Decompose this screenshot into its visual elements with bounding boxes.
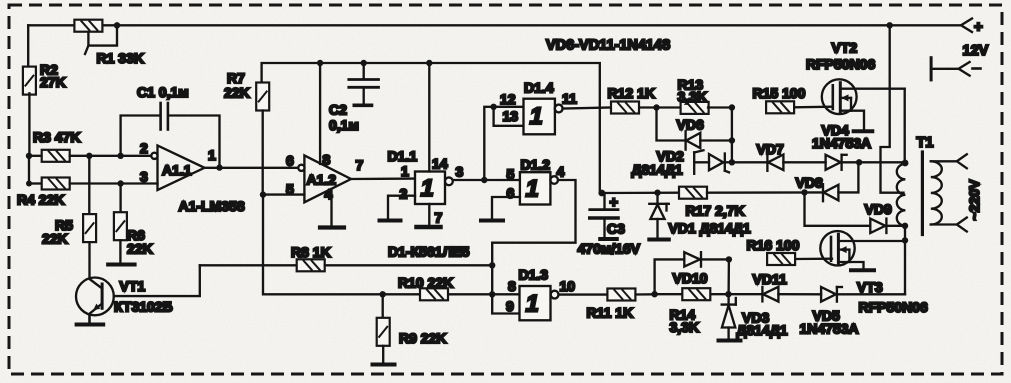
wire A1.1 output to A1.2 pin 6 xyxy=(205,167,299,169)
svg-text:1N4753A: 1N4753A xyxy=(800,321,859,337)
node R9 branch xyxy=(380,291,386,297)
ground under VD1 xyxy=(649,238,669,242)
svg-text:12: 12 xyxy=(500,91,516,107)
transistor Q VT3 RFP50N06 xyxy=(820,231,928,315)
resistor R9 22K xyxy=(377,294,447,362)
wire D1.1 pin 3 to D1.2 pin 5 xyxy=(453,179,520,181)
svg-text:R8 1K: R8 1K xyxy=(291,244,331,260)
node R11 / R14 / VD10 junction xyxy=(651,291,657,297)
op-amp U A1.2 xyxy=(286,152,364,203)
svg-text:13: 13 xyxy=(503,108,519,124)
resistor R6 22K xyxy=(114,184,153,263)
wire D1.1 pin 14 to sub-rail xyxy=(428,63,430,172)
svg-text:11: 11 xyxy=(562,91,577,107)
node sub-rail / C3 / R17 xyxy=(598,190,605,197)
wire R7 column down to R10 line xyxy=(263,195,420,295)
node R5 branch on pin2 line xyxy=(86,153,92,159)
svg-text:5: 5 xyxy=(507,166,515,182)
wire VD3 column xyxy=(727,259,730,294)
resistor R4 22K xyxy=(17,178,70,208)
resistor R5 22K xyxy=(42,156,96,247)
node R7 / A1.2 pin5 xyxy=(260,191,266,197)
svg-text:1: 1 xyxy=(526,291,539,318)
diode VD6 xyxy=(677,117,732,150)
wire D1.3 pin 8 xyxy=(492,293,519,295)
node R13 / R15 junction xyxy=(729,104,735,110)
zener VD1 Д814Д1 xyxy=(649,193,751,237)
node VD2 / VD7 junction xyxy=(729,159,735,165)
wire VD10 branch xyxy=(655,259,685,294)
node VD10 / R16 junction xyxy=(726,256,732,262)
node R8 right junction xyxy=(489,262,495,268)
gate U D1.3 xyxy=(506,267,575,321)
capacitor C1 0,1м xyxy=(121,84,220,167)
svg-text:8: 8 xyxy=(323,152,331,168)
svg-text:R9 22K: R9 22K xyxy=(399,330,446,346)
transformer T1 secondary winding xyxy=(931,161,942,224)
svg-text:7: 7 xyxy=(356,157,364,173)
wire branch up to D1.4 inputs xyxy=(484,107,493,180)
svg-text:3: 3 xyxy=(456,164,464,180)
svg-text:RFP50N06: RFP50N06 xyxy=(806,56,875,72)
svg-text:T1: T1 xyxy=(917,135,934,151)
svg-text:VD6-VD11-1N4148: VD6-VD11-1N4148 xyxy=(546,38,670,54)
svg-text:6: 6 xyxy=(507,185,515,201)
svg-text:R15 100: R15 100 xyxy=(753,85,806,101)
node VD6 / column xyxy=(729,137,735,143)
node R6 branch on pin3 line xyxy=(117,180,123,186)
ground under VT1 emitter xyxy=(77,315,104,324)
ground under A1.2 pin 4 xyxy=(320,225,344,229)
ground under C2 xyxy=(354,104,371,108)
wire R3 to op-amp pin 2 xyxy=(70,155,152,157)
gate U D1.4 xyxy=(500,80,577,135)
node T1 bottom / VT3 drain xyxy=(902,237,908,243)
node sub-rail D1.1 pin 14 xyxy=(426,60,432,66)
wire left column R3 to R4 xyxy=(28,156,30,184)
terminal +12V positive xyxy=(961,19,989,60)
svg-text:7: 7 xyxy=(435,210,443,226)
node R12 / R13 junction xyxy=(653,104,659,110)
wire D1.3 pin 9 loop xyxy=(492,294,519,313)
svg-text:27K: 27K xyxy=(40,74,66,90)
svg-text:КТ3102Б: КТ3102Б xyxy=(114,299,173,315)
wire T1 secondary top lead xyxy=(931,160,957,162)
node D1.4 pins 12-13 tie xyxy=(490,104,496,110)
capacitor C3 470м/16V xyxy=(578,193,641,257)
svg-text:R4 22K: R4 22K xyxy=(17,192,64,208)
diode VD8 xyxy=(796,162,859,201)
svg-text:A1.2: A1.2 xyxy=(307,172,337,188)
wire R4 to op-amp pin 3 xyxy=(70,182,158,184)
svg-text:22K: 22K xyxy=(42,231,68,247)
wire VCC sub-rail xyxy=(262,63,600,193)
node T1 top terminal xyxy=(902,160,909,167)
terminal 12V negative with chassis bar xyxy=(931,58,980,80)
ground under D1.1 pin 2 xyxy=(380,219,401,223)
wire A1.2 pin 8 to sub-rail xyxy=(319,63,321,164)
wire column R13 to VD7 line xyxy=(731,108,733,163)
svg-text:R12 1K: R12 1K xyxy=(608,85,655,101)
svg-text:VD8: VD8 xyxy=(796,175,823,191)
wire D1.4 output to R12 xyxy=(563,108,611,109)
terminal output lower xyxy=(957,218,967,232)
resistor R16 100 xyxy=(747,237,833,265)
svg-text:22K: 22K xyxy=(127,241,153,257)
wire T1 bottom lead / VT3 drain node xyxy=(904,226,906,294)
node T1 lower primary tap xyxy=(902,223,908,229)
svg-text:D1-К561ЛЕ5: D1-К561ЛЕ5 xyxy=(388,244,470,260)
resistor R14 3,3K xyxy=(655,288,729,335)
svg-text:12V: 12V xyxy=(963,43,989,59)
zener VD2 Д814Д1 xyxy=(632,148,732,178)
ground under VT2 source xyxy=(854,129,873,133)
ground under C3 xyxy=(600,237,617,241)
svg-text:D1.1: D1.1 xyxy=(388,148,418,164)
node R10 right / D1.3 inputs junction xyxy=(489,291,495,297)
wire D1.2 output down-around xyxy=(492,180,575,294)
transformer T1 primary winding xyxy=(897,135,934,226)
svg-text:+: + xyxy=(610,195,618,211)
svg-text:VT2: VT2 xyxy=(832,40,858,56)
node left column / R4 xyxy=(26,181,32,187)
wire VD7 line xyxy=(732,161,767,163)
node +12V rail drop xyxy=(887,22,893,28)
transistor Q VT2 RFP50N06 xyxy=(806,40,905,129)
svg-text:22K: 22K xyxy=(224,85,250,101)
gate U D1.1 xyxy=(388,148,464,226)
svg-text:2: 2 xyxy=(140,140,148,156)
transistor Q VT1 КТ3102Б xyxy=(76,242,173,321)
op-amp U A1.1 xyxy=(140,140,216,190)
zener VD5 1N4753A xyxy=(800,287,906,337)
node C1 branch on pin2 line xyxy=(117,153,123,159)
ground under D1.2 pin 6 xyxy=(481,219,503,223)
node VD4 / VD8 riser junction xyxy=(856,159,862,165)
resistor R13 3,3K xyxy=(657,77,732,114)
wire D1.3 output to R11 xyxy=(559,293,608,295)
svg-text:VT3: VT3 xyxy=(857,279,883,295)
ground under R6 xyxy=(108,263,135,267)
wire D1.4 pin 12 xyxy=(494,106,524,108)
wire +12V drop to T1 center tap xyxy=(881,25,904,192)
wire A1.2 output to D1.1 pin 1 xyxy=(351,177,415,180)
wire A1.2 pin 4 to ground xyxy=(330,189,332,225)
wire T1 secondary bottom lead xyxy=(931,223,957,225)
wire D1.4 pin 13 loop xyxy=(494,107,524,126)
wire D1.1 pin 2 to ground xyxy=(388,196,415,218)
ground under VD3 xyxy=(719,339,741,343)
svg-text:3,3K: 3,3K xyxy=(670,319,700,335)
ground under D1.1 pin 7 xyxy=(417,225,441,230)
resistor R7 22K xyxy=(224,70,269,195)
svg-text:D1.2: D1.2 xyxy=(521,157,551,173)
svg-text:R11 1K: R11 1K xyxy=(587,305,634,321)
wire A1.2 pin 5 xyxy=(263,193,304,195)
svg-text:8: 8 xyxy=(508,278,516,294)
node R17 line / VD1 xyxy=(654,190,660,196)
wire VT2 drain to T1 top xyxy=(904,89,906,163)
gate U D1.2 xyxy=(507,157,565,205)
node R14 / VD11 / VD3 junction xyxy=(725,291,731,297)
diode VD9 xyxy=(805,192,906,233)
zener VD3 Д814Д1 xyxy=(722,294,788,338)
svg-text:470м/16V: 470м/16V xyxy=(578,241,641,257)
svg-text:4: 4 xyxy=(557,164,565,180)
svg-text:2: 2 xyxy=(400,186,408,202)
diode VD11 xyxy=(729,271,822,302)
svg-text:6: 6 xyxy=(286,153,294,169)
svg-text:VD9: VD9 xyxy=(865,201,892,217)
diode VD7 xyxy=(757,141,826,171)
svg-text:1: 1 xyxy=(526,176,539,203)
svg-text:VD6: VD6 xyxy=(677,117,704,133)
svg-text:VT1: VT1 xyxy=(120,278,146,294)
svg-text:9: 9 xyxy=(506,298,514,314)
svg-text:3: 3 xyxy=(140,169,148,185)
node junction R1 wiper / rail xyxy=(114,22,120,28)
resistor R1 (trimmer) xyxy=(74,20,144,66)
node sub-rail A1.2 pin 8 xyxy=(317,60,323,66)
wire +12V top rail xyxy=(28,24,961,26)
node C1 feedback / A1.1 output xyxy=(216,164,222,170)
svg-text:A1-LM358: A1-LM358 xyxy=(179,198,245,214)
wire node A column (R1 left / R2) xyxy=(27,25,29,68)
capacitor C2 0,1м xyxy=(329,63,379,133)
svg-text:VD7: VD7 xyxy=(757,141,784,157)
svg-text:C1 0,1м: C1 0,1м xyxy=(137,84,189,100)
svg-text:R16 100: R16 100 xyxy=(747,237,800,253)
resistor R12 1K xyxy=(608,85,657,114)
svg-text:A1.1: A1.1 xyxy=(162,162,192,178)
svg-text:D1.4: D1.4 xyxy=(524,80,554,96)
svg-text:1: 1 xyxy=(530,103,543,130)
resistor R3 47K xyxy=(29,129,80,162)
terminal output upper xyxy=(957,154,967,168)
svg-text:C2: C2 xyxy=(329,102,347,118)
svg-text:Д814Д1: Д814Д1 xyxy=(632,162,683,178)
svg-text:1N4753A: 1N4753A xyxy=(812,135,871,151)
zener VD4 1N4753A xyxy=(812,122,905,170)
resistor R2 27K xyxy=(23,62,66,156)
svg-text:C3: C3 xyxy=(607,221,625,237)
svg-text:10: 10 xyxy=(560,278,576,294)
transformer T1 core xyxy=(921,152,924,235)
wire VT1 base to R8 xyxy=(114,265,200,296)
node D1.1 out / D1.4 input branch xyxy=(481,177,487,183)
svg-text:R3 47K: R3 47K xyxy=(33,129,80,145)
svg-text:1: 1 xyxy=(401,163,409,179)
svg-text:R10 22K: R10 22K xyxy=(398,275,453,291)
svg-text:VD1 Д814Д1: VD1 Д814Д1 xyxy=(669,220,751,236)
svg-text:Д814Д1: Д814Д1 xyxy=(737,322,788,338)
svg-text:D1.3: D1.3 xyxy=(519,267,549,283)
resistor R17 2,7K xyxy=(602,187,823,219)
svg-text:~220V: ~220V xyxy=(966,179,982,221)
svg-text:R17 2,7K: R17 2,7K xyxy=(686,203,745,219)
svg-text:VD10: VD10 xyxy=(673,270,708,286)
svg-text:VD11: VD11 xyxy=(753,271,787,287)
node VD8 / VD9 junction xyxy=(801,189,807,195)
diode VD10 xyxy=(673,252,729,286)
svg-text:14: 14 xyxy=(432,156,448,172)
svg-text:+: + xyxy=(974,19,983,36)
node R2 / R3 junction xyxy=(26,153,32,159)
ground under R9 xyxy=(373,363,395,367)
node sub-rail C2 xyxy=(361,60,367,66)
wire VD6 branch xyxy=(657,108,685,141)
svg-text:1: 1 xyxy=(208,147,216,163)
svg-text:RFP50N06: RFP50N06 xyxy=(859,299,928,315)
svg-text:3,3K: 3,3K xyxy=(678,89,708,105)
resistor R15 100 xyxy=(753,85,832,113)
svg-text:R1 33K: R1 33K xyxy=(97,50,144,66)
svg-text:1: 1 xyxy=(421,175,434,202)
svg-text:0,1м: 0,1м xyxy=(329,117,359,133)
resistor R8 1K xyxy=(200,244,492,271)
resistor R11 1K xyxy=(587,289,655,321)
resistor R10 22K xyxy=(398,275,492,301)
ground under VT3 source xyxy=(851,268,874,272)
wire D1.2 pin 6 to ground xyxy=(492,197,520,218)
wire D1.1 pin 7 to ground xyxy=(428,204,430,224)
